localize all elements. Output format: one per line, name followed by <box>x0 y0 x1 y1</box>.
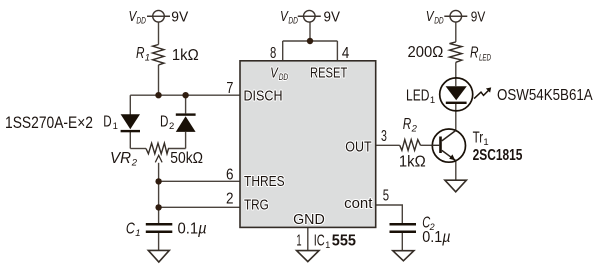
svg-text:2: 2 <box>226 191 234 208</box>
svg-text:200Ω: 200Ω <box>408 44 444 61</box>
svg-text:V: V <box>270 66 279 82</box>
svg-text:9V: 9V <box>171 9 188 25</box>
svg-text:TRG: TRG <box>244 198 269 214</box>
svg-text:R: R <box>403 116 412 133</box>
svg-text:2SC1815: 2SC1815 <box>473 147 523 164</box>
svg-text:IC: IC <box>314 233 325 250</box>
svg-text:9V: 9V <box>471 9 486 25</box>
svg-text:R: R <box>470 45 479 62</box>
svg-text:DD: DD <box>288 16 298 27</box>
svg-text:LED: LED <box>406 88 429 105</box>
svg-text:1: 1 <box>113 121 118 132</box>
svg-text:R: R <box>136 45 145 62</box>
svg-text:3: 3 <box>381 128 387 145</box>
svg-text:C: C <box>126 220 136 237</box>
svg-text:1SS270A-E×2: 1SS270A-E×2 <box>5 113 93 132</box>
svg-text:0.1µ: 0.1µ <box>422 229 450 246</box>
svg-text:1: 1 <box>135 228 140 239</box>
svg-text:DD: DD <box>434 16 444 27</box>
svg-text:Tr: Tr <box>473 129 484 146</box>
svg-text:OUT: OUT <box>345 139 371 155</box>
svg-text:D: D <box>160 113 168 130</box>
svg-text:4: 4 <box>342 45 350 62</box>
svg-text:RESET: RESET <box>310 66 347 82</box>
svg-text:7: 7 <box>226 80 233 97</box>
svg-text:5: 5 <box>383 188 389 205</box>
svg-text:THRES: THRES <box>244 174 285 190</box>
svg-text:2: 2 <box>169 121 174 132</box>
svg-text:8: 8 <box>270 45 276 62</box>
svg-text:1: 1 <box>145 53 150 64</box>
svg-text:50kΩ: 50kΩ <box>170 150 203 167</box>
svg-text:2: 2 <box>411 123 418 134</box>
svg-text:555: 555 <box>332 233 357 250</box>
svg-text:9V: 9V <box>324 9 341 25</box>
svg-text:6: 6 <box>226 166 234 183</box>
svg-text:DD: DD <box>279 72 289 83</box>
svg-text:2: 2 <box>131 158 138 169</box>
svg-text:DISCH: DISCH <box>244 89 283 105</box>
svg-text:DD: DD <box>136 16 146 27</box>
svg-text:0.1µ: 0.1µ <box>178 220 207 237</box>
svg-text:VR: VR <box>110 150 131 167</box>
svg-text:GND: GND <box>293 212 325 228</box>
svg-text:1: 1 <box>325 240 330 250</box>
svg-text:cont: cont <box>344 196 372 212</box>
svg-text:1: 1 <box>430 95 435 106</box>
svg-text:OSW54K5B61A: OSW54K5B61A <box>497 87 593 104</box>
svg-text:LED: LED <box>479 53 491 64</box>
svg-text:1kΩ: 1kΩ <box>172 47 199 64</box>
svg-text:D: D <box>103 113 111 130</box>
svg-text:1: 1 <box>296 233 301 250</box>
svg-text:1kΩ: 1kΩ <box>399 154 426 171</box>
